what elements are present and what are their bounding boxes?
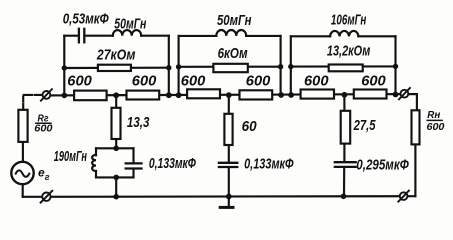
node D (rail / bridge2 left) — [176, 92, 182, 98]
wire bridge1 left edge — [63, 36, 65, 96]
node A (rail / bridge1 left) — [62, 93, 68, 99]
node I (rail / bridge3 right) — [393, 92, 399, 98]
wire LC loop right upper — [132, 148, 134, 163]
wire bridge3 top left segment — [291, 35, 330, 37]
wire bridge2 top left segment — [179, 35, 217, 37]
terminal output top (phi) — [399, 88, 410, 99]
resistor 13,3 — [112, 108, 121, 139]
resistor 13,2кОм — [329, 65, 363, 72]
wire bridge2 middle (6кОм row) — [179, 66, 281, 68]
wire output right drop to Rн — [409, 94, 417, 109]
wire bridge2 top right segment — [246, 35, 280, 37]
node bridge2 mid left — [176, 64, 181, 69]
wire bridge1 right edge — [168, 36, 170, 96]
inductor 190мГн (vertical coil) — [92, 155, 96, 171]
svg-text:27кОм: 27кОм — [96, 46, 135, 63]
node bottom rail ground — [226, 194, 232, 200]
wire bridge1 top mid segment — [85, 35, 112, 37]
svg-text:600: 600 — [304, 72, 329, 89]
wire LC loop left lower — [95, 171, 97, 177]
svg-text:600: 600 — [427, 122, 445, 133]
resistor Rг/600 — [18, 110, 27, 142]
wire bridge1 middle (27кОм row) — [64, 67, 169, 69]
wire LC loop top — [96, 147, 134, 149]
svg-text:0,53мкФ: 0,53мкФ — [63, 11, 109, 28]
capacitor 0,133мкФ (#2) plates — [219, 163, 237, 167]
wire shunt3 mid lead — [343, 145, 345, 162]
wire bridge1 top right segment — [141, 35, 169, 37]
node LC loop top — [113, 146, 119, 152]
inductor 50мГн (bridge1) — [113, 30, 141, 36]
wire bottom rail — [23, 195, 416, 198]
wire LC loop right lower — [132, 170, 134, 178]
node bottom rail shunt3 — [341, 194, 347, 200]
node LC loop bottom — [113, 175, 119, 181]
svg-text:27,5: 27,5 — [353, 117, 376, 134]
wire bridge3 middle (13,2кОм row) — [291, 65, 396, 67]
resistor 600 (#1) — [74, 91, 107, 101]
svg-text:6кОм: 6кОм — [218, 45, 248, 62]
node B (rail / shunt1) — [113, 92, 119, 98]
wire shunt2 top lead — [228, 95, 230, 113]
resistor 600 (#4) — [240, 90, 273, 99]
wire bridge3 right edge — [394, 36, 396, 94]
wire source bottom lead — [22, 184, 24, 196]
wire bridge3 left edge — [290, 36, 292, 95]
resistor 600 (#2) — [127, 91, 160, 100]
node bottom rail shunt1 — [113, 194, 119, 200]
svg-text:0,295мкФ: 0,295мкФ — [356, 157, 409, 174]
svg-text:0,133мкФ: 0,133мкФ — [244, 155, 294, 172]
wire LC loop left upper — [95, 148, 97, 155]
ground symbol — [228, 197, 230, 207]
node C (rail / bridge1 right) — [166, 92, 172, 98]
wire dashed input stub (vertical to Rг) — [22, 97, 24, 109]
terminal input top (phi) — [41, 89, 52, 100]
node F (rail / bridge2 right) — [278, 92, 284, 98]
node bridge2 mid right — [278, 64, 283, 69]
wire dashed input stub (top-left corner, horizontal) — [24, 94, 42, 96]
svg-text:600: 600 — [181, 72, 206, 89]
svg-text:600: 600 — [246, 72, 271, 89]
svg-text:0,133мкФ: 0,133мкФ — [149, 155, 196, 172]
node bridge3 mid right — [393, 64, 398, 69]
svg-text:Rн: Rн — [427, 109, 441, 121]
wire bridge2 left edge — [178, 36, 180, 95]
node E (rail / shunt2) — [226, 92, 232, 98]
source eг (AC generator) — [11, 162, 33, 184]
svg-text:13,2кОм: 13,2кОм — [327, 42, 371, 59]
svg-text:60: 60 — [242, 118, 258, 135]
wire top rail (input to output) — [51, 94, 417, 95]
wire Rг to source — [22, 143, 24, 162]
resistor 600 (#3) — [187, 89, 220, 98]
node bridge1 mid left — [62, 65, 67, 70]
wire shunt1 bottom lead — [115, 177, 117, 196]
node bridge3 mid left — [288, 64, 293, 69]
svg-text:190мГн: 190мГн — [54, 148, 87, 165]
wire bridge3 top right segment — [358, 35, 395, 37]
resistor 60 — [224, 114, 232, 145]
terminal output bottom (phi) — [398, 191, 409, 202]
resistor 600 (#5) — [301, 90, 334, 99]
wire shunt2 bottom lead — [228, 168, 230, 196]
wire shunt3 bottom lead — [343, 168, 345, 196]
svg-text:600: 600 — [132, 72, 157, 89]
svg-text:600: 600 — [361, 72, 386, 89]
wire Rн bottom lead — [414, 145, 416, 196]
svg-text:13,3: 13,3 — [127, 114, 150, 131]
svg-text:106мГн: 106мГн — [331, 11, 367, 28]
resistor 6кОм — [213, 64, 247, 72]
svg-text:600: 600 — [34, 124, 53, 135]
wire LC loop bottom — [96, 176, 134, 178]
resistor 600 (#6) — [354, 90, 387, 99]
wire bridge1 top left segment — [64, 35, 78, 37]
capacitor 0,133мкФ (#1) plates — [126, 163, 142, 168]
resistor 27,5 — [341, 111, 351, 144]
node H (rail / shunt3) — [342, 92, 348, 98]
svg-text:50мГн: 50мГн — [114, 15, 146, 32]
wire shunt2 mid lead — [228, 146, 230, 162]
terminal input bottom (phi) — [41, 191, 53, 203]
wire shunt1 top lead — [115, 95, 117, 107]
capacitor 0,295мкФ plates — [335, 162, 356, 167]
resistor Rн/600 — [412, 110, 420, 144]
wire shunt1 between resistor and LC loop — [115, 140, 117, 148]
capacitor 0,53мкФ plates — [79, 29, 84, 43]
resistor 27кОм — [98, 65, 131, 71]
svg-text:600: 600 — [67, 72, 92, 89]
inductor 106мГн (bridge3) — [330, 31, 358, 36]
node G (rail / bridge3 left) — [288, 92, 294, 98]
inductor 50мГн (bridge2) — [216, 30, 246, 36]
svg-text:50мГн: 50мГн — [217, 12, 252, 29]
wire bridge2 right edge — [280, 36, 282, 95]
node bridge1 mid right — [166, 65, 171, 70]
wire shunt3 top lead — [343, 95, 345, 110]
